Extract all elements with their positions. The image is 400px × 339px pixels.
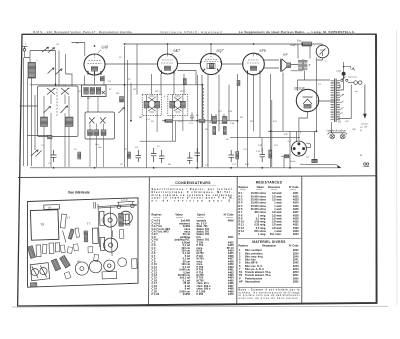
secteur arrow [363, 114, 367, 119]
wire B+ top bus [125, 44, 323, 45]
MF2 trimmers [148, 96, 156, 112]
chassis tilted coil d [51, 259, 60, 271]
MF3 trimmers [174, 96, 182, 112]
coupling capacitor C9 [212, 117, 217, 124]
chassis tube socket v7 [118, 258, 127, 267]
chassis bus end arrow [337, 165, 341, 168]
page frame border [18, 34, 377, 306]
dial lamps bracket [328, 133, 348, 135]
tube V4 6V6 [243, 53, 265, 75]
section divider horizontal [18, 176, 376, 178]
tuning eye tube 6AF7 [316, 45, 329, 58]
switch S4 arrows [48, 68, 63, 75]
svg-text:C1: C1 [41, 144, 44, 147]
variable capacitor CV1 [47, 88, 56, 95]
chassis out trans [132, 259, 138, 269]
svg-text:3262: 3262 [293, 279, 299, 283]
MF1 winding b [90, 87, 95, 94]
nota rule [238, 287, 301, 289]
wire tube plate links [105, 64, 244, 85]
chassis dial lamp bracket [117, 201, 135, 208]
chassis strip item [60, 214, 66, 228]
chassis tube socket v4 [103, 238, 117, 252]
svg-text:Imprimerie CHAIX, Argenteuil: Imprimerie CHAIX, Argenteuil [160, 30, 222, 34]
switch S2 arrows [44, 106, 68, 113]
chassis electrolytic cans [49, 243, 54, 254]
output transformer TS [298, 60, 307, 71]
MF1 trimmer [102, 91, 105, 94]
MF2 winding a [144, 101, 149, 108]
svg-text:Culot: Culot [290, 160, 296, 163]
svg-text:Haut-parleur: Haut-parleur [245, 279, 260, 283]
svg-text:4034: 4034 [293, 232, 299, 236]
mains loop wiring [338, 76, 351, 119]
tube V3 6Q7 [200, 53, 221, 74]
secteur drop wire [364, 85, 366, 115]
resistor R2 [127, 152, 130, 159]
svg-text:MF2: MF2 [179, 90, 185, 93]
header imprint line [33, 30, 355, 34]
cathode resistor V4 [237, 81, 240, 86]
page edge shadow bottom [12, 305, 388, 308]
svg-text:P 250: P 250 [197, 292, 204, 296]
chassis view box [28, 198, 139, 287]
svg-text:F C 20: F C 20 [152, 292, 160, 296]
osc coil Lc [101, 130, 106, 136]
chassis tilted coil e [60, 255, 71, 268]
svg-text:N° Code: N° Code [224, 213, 235, 217]
chassis tube socket v1 [75, 262, 89, 276]
nota paragraph [239, 289, 301, 300]
condensateurs specifications paragraph [152, 188, 234, 202]
condensateurs table header [152, 213, 235, 217]
resistor R4 [120, 97, 124, 103]
chassis bar [84, 231, 88, 242]
coil L2 [41, 117, 48, 127]
page frame right/bottom heavier edge [18, 34, 377, 306]
wire mid bus [162, 73, 317, 168]
column divider condensateurs/resistances [236, 177, 238, 305]
chassis tube socket v6 [104, 260, 116, 272]
svg-text:41: 41 [360, 129, 362, 132]
svg-text:TB: TB [48, 207, 52, 210]
wave switch S1 arrows [42, 47, 55, 53]
svg-text:CF: CF [306, 156, 310, 159]
materiel divers rows [239, 248, 299, 283]
svg-text:CV: CV [63, 84, 67, 87]
wire AVC bus [30, 46, 203, 167]
antenna terminal [22, 46, 28, 51]
svg-text:R11: R11 [272, 120, 277, 123]
tuner block outline [38, 86, 79, 137]
svg-text:4470: 4470 [228, 292, 234, 296]
power transformer TA [331, 79, 344, 123]
resistor R12 [269, 150, 272, 158]
chassis small parts row [67, 247, 72, 254]
CF wiring [344, 67, 355, 72]
svg-text:Exc.: Exc. [296, 39, 302, 43]
chassis rail lines [98, 203, 139, 257]
chassis coil hatched b [36, 245, 41, 257]
svg-text:R10: R10 [244, 163, 250, 166]
resistor R9 [223, 127, 226, 135]
svg-text:Le Supplement du Haut-Parleur-: Le Supplement du Haut-Parleur-Radio. — L… [239, 30, 355, 34]
osc coil La [88, 130, 93, 136]
svg-text:Interrupt.: Interrupt. [347, 76, 357, 79]
terminal G [364, 163, 370, 167]
chassis MF can right a [99, 211, 104, 225]
capacitor C1 [51, 150, 57, 162]
scattered value labels [41, 42, 363, 166]
capacitor C20 [284, 155, 289, 158]
svg-text:1 még.: 1 még. [258, 232, 266, 236]
mains switch interrupteur [341, 77, 348, 82]
svg-text:MF: MF [86, 97, 91, 100]
resistor R5 [165, 119, 173, 122]
chassis extra parts [60, 245, 65, 253]
chassis speaker rect [102, 271, 117, 278]
page edge shadow right [396, 30, 399, 305]
capacitor C4 [136, 150, 142, 162]
svg-text:Spécif.: Spécif. [197, 213, 206, 217]
resistor R6 [199, 119, 205, 122]
svg-text:Désignation: Désignation [262, 245, 276, 248]
capacitor C17 [229, 150, 235, 162]
chassis bottom-left tuning gang [30, 263, 50, 281]
capacitor C18 [260, 148, 266, 162]
svg-text:N° Code: N° Code [289, 186, 299, 189]
svg-text:Lampes de cadran: Lampes de cadran [326, 129, 347, 132]
tube socket base diagram [291, 141, 310, 156]
svg-text:6A8: 6A8 [102, 45, 108, 50]
svg-text:TA: TA [338, 119, 341, 123]
svg-text:R13: R13 [283, 133, 289, 136]
materiel divers header [239, 245, 300, 248]
resistor R10 [236, 152, 239, 160]
field coil Exc [302, 42, 312, 46]
mains plug [348, 81, 362, 85]
chassis tube socket v3 [103, 213, 117, 227]
resistor R1 [78, 152, 81, 159]
materiel divers rule [238, 237, 301, 239]
svg-text:MF1: MF1 [154, 90, 160, 93]
cathode resistor V2 [183, 79, 186, 85]
svg-text:P: P [239, 232, 241, 236]
chassis dark blob [30, 283, 37, 287]
resistor R8 [213, 127, 216, 135]
svg-text:HP: HP [239, 279, 243, 283]
chassis tube socket v5 [119, 211, 132, 224]
svg-text:T T: T T [87, 222, 91, 225]
chassis coil hatched a [27, 246, 35, 259]
tube V1 6A8 [84, 54, 105, 75]
svg-text:RÉSISTANCES: RÉSISTANCES [256, 180, 283, 185]
MF3 winding b [180, 101, 185, 108]
IF transformer MF1 can [82, 85, 107, 97]
svg-text:4609: 4609 [228, 219, 234, 223]
wire IF links [137, 44, 229, 167]
wire antenna lead [24, 51, 36, 167]
capacitor C5 [151, 148, 157, 162]
osc internal wires [88, 97, 104, 168]
dial lamp LA [330, 134, 335, 139]
osc coil Lb [94, 130, 99, 136]
IF transformer MF2 can [142, 94, 161, 115]
svg-text:MF: MF [76, 260, 81, 263]
coupling capacitor C10 [223, 117, 228, 124]
oscillator block outline [85, 112, 115, 139]
value speckle labels [25, 43, 363, 167]
fuse holder CF [312, 159, 318, 162]
wire top grid bus left [20, 43, 85, 136]
capacitor C16 [187, 152, 193, 164]
tube V2 6K7 [158, 54, 178, 74]
svg-text:LA LB: LA LB [120, 198, 128, 201]
svg-text:Repères: Repères [239, 245, 249, 248]
rectifier tube V5 5Y3 [296, 89, 318, 111]
chassis pot bracket [68, 229, 74, 240]
capacitor C2 [48, 135, 53, 139]
chassis small rect c [42, 244, 47, 253]
svg-text:R1: R1 [73, 148, 77, 151]
MF2 winding b [155, 101, 160, 108]
svg-text:R.M.S. - 142, Boulevard Verdun: R.M.S. - 142, Boulevard Verdun, Paris-17… [33, 30, 133, 34]
IF transformer MF3 can [168, 94, 188, 115]
svg-text:C11: C11 [146, 118, 150, 121]
variable capacitor CV2 [61, 88, 70, 95]
svg-text:Vue intérieure: Vue intérieure [68, 191, 90, 195]
svg-text:N° Code: N° Code [289, 245, 299, 248]
capacitor C7 [195, 148, 201, 162]
svg-text:Repères: Repères [239, 186, 249, 189]
antenna coil L1 [28, 63, 36, 79]
column divider resistances/blank [301, 177, 303, 304]
column divider chassis/condensateurs [148, 177, 151, 305]
svg-text:Repères: Repères [152, 213, 163, 217]
MF1 winding c [96, 87, 101, 94]
resistances table header [239, 186, 300, 189]
wire detector links [212, 74, 272, 167]
detector capacitor small [190, 113, 194, 122]
chassis cap right [118, 213, 123, 226]
MF3 winding a [170, 101, 175, 108]
svg-text:Puissance: Puissance [268, 186, 281, 189]
chassis marks [62, 201, 113, 242]
svg-text:6V6: 6V6 [260, 48, 266, 53]
svg-text:4641: 4641 [228, 235, 234, 239]
svg-text:Valeur: Valeur [175, 213, 183, 217]
svg-text:2x250: 2x250 [183, 292, 191, 296]
svg-text:Int: Int [354, 90, 358, 93]
wire chassis bus [30, 164, 341, 168]
capacitor C6 [159, 150, 165, 163]
switch S5 arrow [119, 107, 125, 113]
svg-text:Pot. inter.: Pot. inter. [270, 232, 282, 236]
wire rectifier links [281, 62, 344, 168]
svg-text:5Y3GB: 5Y3GB [294, 87, 305, 91]
svg-text:6K7: 6K7 [174, 48, 182, 53]
condensateurs table rows [152, 219, 235, 296]
tuner block internal wires [44, 95, 69, 168]
svg-text:6AF7: 6AF7 [291, 43, 299, 47]
svg-text:C19: C19 [337, 70, 342, 73]
gang link dashed [57, 88, 203, 120]
resistances table rows [239, 191, 300, 236]
svg-text:et de révision pour S.: et de révision pour S. [152, 200, 234, 203]
switch S3 arrows [31, 150, 42, 157]
osc trimmer T1 [89, 118, 95, 124]
osc trimmer T2 [100, 118, 106, 124]
chassis fuse block TB [44, 205, 60, 210]
svg-text:CONDENSATEURS: CONDENSATEURS [175, 181, 211, 185]
chassis tube socket v2 [89, 260, 102, 273]
filter capacitor CF [342, 72, 346, 76]
svg-text:éventuel de prise du haut-parl: éventuel de prise du haut-parleur. [239, 297, 300, 300]
MF1 winding a [84, 87, 89, 94]
MF2 lead wires [147, 94, 158, 167]
svg-text:6Q7: 6Q7 [217, 48, 225, 53]
svg-text:Valeur: Valeur [257, 186, 264, 189]
chassis MF can right b [100, 237, 105, 250]
svg-text:MF: MF [138, 116, 143, 119]
svg-text:MATÉRIEL DIVERS: MATÉRIEL DIVERS [252, 239, 285, 244]
MF3 lead wires [140, 94, 183, 141]
loudspeaker HP [281, 59, 291, 72]
dial lamp LB [340, 134, 345, 139]
wire output links [264, 44, 323, 131]
cathode resistor V1 [100, 77, 104, 81]
chassis transformer TA [30, 210, 58, 241]
svg-text:R12: R12 [273, 144, 279, 147]
chassis IF can TS [92, 228, 98, 244]
svg-text:Fil: Fil [66, 216, 70, 219]
coil L3 [66, 117, 74, 127]
svg-text:HP: HP [282, 52, 288, 56]
